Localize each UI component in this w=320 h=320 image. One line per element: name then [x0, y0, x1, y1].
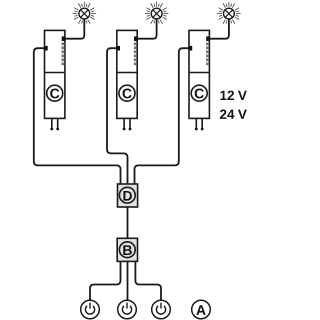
wire lamp3 to unit3 — [209, 19, 229, 39]
plug 3 (power symbol) — [152, 300, 171, 319]
control unit C (1) — [45, 30, 65, 130]
letter A — [196, 305, 205, 315]
power arc — [85, 306, 94, 314]
power arc — [122, 306, 131, 314]
box D body — [118, 184, 138, 207]
wire lamp1 to unit1 — [65, 19, 84, 39]
junction box D — [118, 184, 138, 207]
power arc — [156, 306, 165, 314]
plug outline — [118, 300, 137, 319]
power stem — [126, 303, 128, 309]
lamp 1 — [73, 2, 97, 26]
plug 2 (power symbol) — [118, 300, 137, 319]
power stem — [89, 303, 91, 309]
wire unit2 to D — [107, 48, 128, 184]
label 24 V — [220, 109, 247, 118]
wire lamp2 to unit2 — [137, 19, 156, 39]
plug 1 (power symbol) — [81, 300, 100, 319]
control unit C (3) — [189, 30, 209, 130]
plug outline — [81, 300, 100, 319]
circle A outline — [192, 300, 211, 319]
box B body — [117, 238, 137, 261]
letter D — [123, 191, 132, 201]
wire B to plug 3 — [135, 261, 161, 300]
letter B — [123, 245, 132, 255]
label 12 V — [220, 91, 246, 100]
box D marking circle — [119, 187, 135, 203]
wire unit1 to D — [34, 48, 121, 184]
power stem — [160, 303, 162, 309]
box B marking circle — [119, 242, 135, 258]
label A — [192, 300, 211, 319]
control unit C (2) — [117, 30, 137, 130]
junction box B — [117, 238, 137, 261]
wire unit3 to D — [135, 48, 190, 184]
lamp 2 — [145, 2, 169, 26]
wire B to plug 2 — [127, 261, 129, 300]
wire B to plug 1 — [90, 261, 121, 300]
wire D to B — [127, 207, 129, 238]
lamp 3 — [217, 2, 241, 26]
plug outline — [152, 300, 171, 319]
